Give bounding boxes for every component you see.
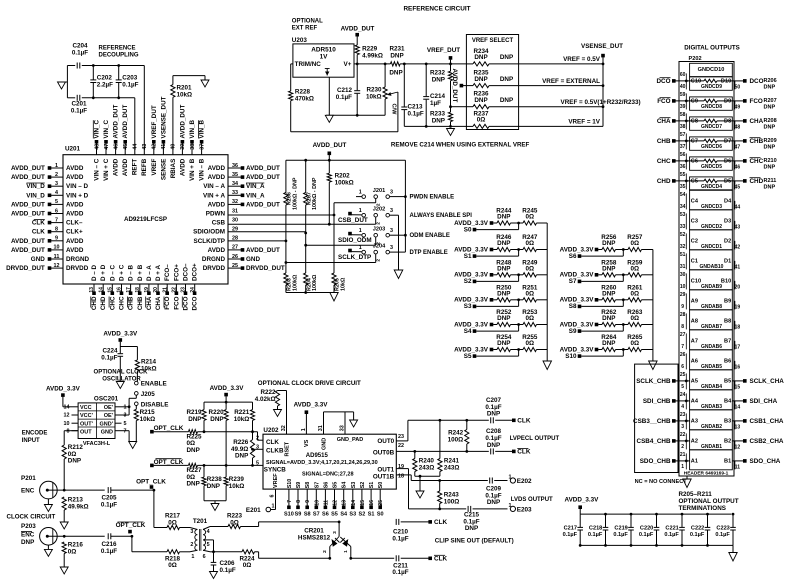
svg-text:15: 15 xyxy=(360,500,366,506)
svg-text:0Ω: 0Ω xyxy=(68,549,77,556)
svg-text:C201: C201 xyxy=(71,101,87,108)
svg-text:CR201: CR201 xyxy=(304,528,324,535)
svg-text:T201: T201 xyxy=(193,518,208,525)
node OPT_CLK-bar xyxy=(116,522,146,552)
svg-text:23: 23 xyxy=(680,412,686,418)
svg-text:FCO: FCO xyxy=(750,98,763,105)
svg-text:DTP ENABLE: DTP ENABLE xyxy=(410,250,448,256)
ground J202 always enable xyxy=(394,270,403,279)
header P202 row A6/B6 pins 26/6/16 xyxy=(680,350,741,371)
svg-text:CHB: CHB xyxy=(750,138,764,145)
resistor R241 243ohm xyxy=(438,420,460,476)
svg-text:39: 39 xyxy=(180,144,186,150)
svg-text:S3: S3 xyxy=(349,511,356,517)
resistor R226 49.9 DNP xyxy=(231,432,255,466)
resistor R246 DNP / resistor R247 0ohm (S1 select) xyxy=(454,234,547,253)
svg-text:V+: V+ xyxy=(344,61,352,68)
svg-text:VREF SELECT: VREF SELECT xyxy=(472,38,514,44)
svg-text:DNP: DNP xyxy=(497,240,510,247)
title REFERENCE CIRCUIT xyxy=(403,6,470,13)
svg-text:5: 5 xyxy=(681,384,684,390)
svg-text:A5: A5 xyxy=(691,379,698,385)
svg-text:S8: S8 xyxy=(304,511,311,517)
svg-text:OPTIONAL CLOCK DRIVE CIRCUIT: OPTIONAL CLOCK DRIVE CIRCUIT xyxy=(258,380,361,387)
svg-text:R216: R216 xyxy=(68,542,84,549)
svg-text:GND: GND xyxy=(246,256,260,263)
svg-text:43: 43 xyxy=(142,144,148,150)
svg-text:REMOVE C214 WHEN USING EXTERNA: REMOVE C214 WHEN USING EXTERNAL VREF xyxy=(391,141,530,148)
svg-text:37: 37 xyxy=(199,144,205,150)
svg-text:23: 23 xyxy=(398,434,404,440)
resistor R264 DNP / resistor R265 0ohm (S10 select) xyxy=(560,334,653,353)
svg-text:S9: S9 xyxy=(296,482,302,489)
svg-text:DECOUPLING: DECOUPLING xyxy=(99,53,139,59)
svg-text:26: 26 xyxy=(680,352,686,358)
svg-text:S0: S0 xyxy=(377,511,384,517)
header P202 row A9/B9 pins 29/9/19 xyxy=(680,290,741,311)
svg-text:VIN_B: VIN_B xyxy=(199,120,206,139)
svg-text:1: 1 xyxy=(55,163,58,169)
svg-text:CLK: CLK xyxy=(32,229,45,236)
node CLK LVPECL xyxy=(512,418,531,425)
svg-text:OPTIONAL: OPTIONAL xyxy=(292,19,323,25)
svg-text:VIN_B: VIN_B xyxy=(189,120,196,139)
label PWDN ENABLE xyxy=(410,195,455,201)
svg-text:B2: B2 xyxy=(724,439,731,445)
svg-text:0.1µF: 0.1µF xyxy=(690,532,705,538)
svg-text:R206: R206 xyxy=(764,78,777,84)
wire ENCB node xyxy=(63,535,105,538)
svg-text:CLK: CLK xyxy=(517,418,531,425)
U201 pin 31 PDWN xyxy=(206,208,238,217)
svg-text:56: 56 xyxy=(680,152,686,158)
resistor R221 10k xyxy=(234,402,255,432)
svg-text:48: 48 xyxy=(735,124,741,130)
svg-text:SDO_CHB: SDO_CHB xyxy=(640,458,671,465)
svg-text:0.1µF: 0.1µF xyxy=(336,94,352,101)
svg-text:D + A: D + A xyxy=(155,265,162,281)
VREF SELECT box xyxy=(466,35,518,130)
svg-text:6: 6 xyxy=(203,554,206,560)
svg-text:C216: C216 xyxy=(101,541,117,548)
svg-text:S1: S1 xyxy=(464,253,472,260)
svg-text:S2: S2 xyxy=(464,278,472,285)
header P202 row A8/B8 pins 28/8/18 xyxy=(680,310,741,331)
svg-text:3: 3 xyxy=(190,529,193,535)
svg-text:D9: D9 xyxy=(724,99,731,105)
svg-text:AVDD_DUT: AVDD_DUT xyxy=(313,142,347,149)
U201 pin 5 AVDD / net AVDD_DUT xyxy=(11,199,84,208)
U201 pin 28 SCLK/DTP xyxy=(194,236,239,245)
svg-text:9: 9 xyxy=(55,236,58,242)
svg-text:32: 32 xyxy=(281,425,287,431)
svg-text:OUT0: OUT0 xyxy=(377,438,394,445)
svg-text:DNP: DNP xyxy=(602,290,615,297)
wire OE pins to J205 common xyxy=(122,405,131,415)
svg-text:VREF = 1V: VREF = 1V xyxy=(568,119,600,126)
svg-text:D1: D1 xyxy=(724,259,731,265)
svg-text:DNP: DNP xyxy=(602,340,615,347)
label VREF = EXTERNAL xyxy=(542,78,600,85)
svg-text:ENABLE: ENABLE xyxy=(141,381,167,388)
svg-text:C222: C222 xyxy=(691,526,704,532)
svg-text:ALWAYS ENABLE SPI: ALWAYS ENABLE SPI xyxy=(410,213,473,219)
svg-text:FCO: FCO xyxy=(657,98,670,105)
svg-text:CHD: CHD xyxy=(91,296,98,310)
svg-text:1µF: 1µF xyxy=(430,100,441,107)
svg-text:VIN + C: VIN + C xyxy=(103,158,110,181)
node AVDD_DUT to R235 xyxy=(451,69,466,103)
svg-text:B8: B8 xyxy=(724,319,731,325)
label REMOVE C214 WHEN USING EXTERNAL VREF xyxy=(391,141,530,148)
header P202 row C3/D3 pins 53/33/43 xyxy=(680,210,741,231)
svg-text:SDIO_ODM: SDIO_ODM xyxy=(338,237,372,244)
svg-text:DNP: DNP xyxy=(764,164,776,170)
svg-text:B4: B4 xyxy=(724,399,732,405)
test point E201 xyxy=(246,504,275,514)
svg-text:VREF = 0.5V: VREF = 0.5V xyxy=(563,56,601,63)
node S3 xyxy=(464,300,519,310)
svg-text:50: 50 xyxy=(735,84,741,90)
header P202 row A1/B1 pins 21/1/11 xyxy=(680,450,740,471)
svg-text:0.1µF: 0.1µF xyxy=(392,535,408,542)
capacitor C218 0.1uF xyxy=(588,513,608,547)
svg-text:AVDD_DUT: AVDD_DUT xyxy=(11,174,45,181)
resistor R224 0ohm xyxy=(210,550,329,569)
header P202 bottom label xyxy=(684,470,729,479)
svg-text:D3: D3 xyxy=(724,219,731,225)
svg-text:100kΩ - DNP: 100kΩ - DNP xyxy=(312,177,318,210)
ground clock network xyxy=(211,504,219,511)
svg-text:GNDCD9: GNDCD9 xyxy=(701,84,722,90)
svg-text:CLK: CLK xyxy=(266,439,279,446)
wire ENC node xyxy=(63,489,105,492)
U201 pin 24 DCO+ / net DCO xyxy=(190,263,199,310)
U201 pin 8 CLK+ / net CLK xyxy=(32,227,83,236)
header P202 row A7/B7 pins 27/7/17 xyxy=(680,330,741,351)
svg-text:22: 22 xyxy=(398,443,404,449)
svg-text:VCC: VCC xyxy=(80,405,92,411)
resistor R211 DNP in row / nets CHD/CHD xyxy=(657,178,777,191)
svg-text:DNP: DNP xyxy=(474,54,487,61)
svg-text:DNP: DNP xyxy=(210,416,223,423)
svg-text:100Ω: 100Ω xyxy=(448,436,464,443)
svg-text:OSC201: OSC201 xyxy=(94,395,119,402)
svg-text:AVDD: AVDD xyxy=(208,174,226,181)
node SCLK_DTP xyxy=(338,254,371,261)
svg-text:0.1µF: 0.1µF xyxy=(715,532,730,538)
ground C206 xyxy=(210,572,218,579)
svg-text:36: 36 xyxy=(680,164,686,170)
ground U202 GND xyxy=(350,420,358,427)
svg-text:DNP: DNP xyxy=(68,458,81,465)
node AVDD_DUT pullup rail xyxy=(313,142,347,160)
header P202 row A5/B5 pins 25/5/15 xyxy=(680,370,741,391)
resistor R218 0ohm xyxy=(132,550,190,569)
resistor R260 DNP / resistor R261 0ohm (S8 select) xyxy=(560,284,653,303)
svg-text:0.1µF: 0.1µF xyxy=(613,532,628,538)
svg-text:GND': GND' xyxy=(99,421,113,427)
svg-text:4: 4 xyxy=(681,404,684,410)
svg-text:14: 14 xyxy=(351,500,357,506)
U201 pin 46 AVDD xyxy=(113,105,120,177)
svg-text:16: 16 xyxy=(735,364,741,370)
svg-text:45: 45 xyxy=(123,144,129,150)
transformer T201 xyxy=(190,518,214,560)
svg-text:FCO: FCO xyxy=(164,296,171,309)
svg-text:S7: S7 xyxy=(314,482,320,489)
svg-text:C212: C212 xyxy=(337,87,353,94)
svg-text:RSET: RSET xyxy=(284,441,290,456)
svg-text:0.1µF: 0.1µF xyxy=(563,532,578,538)
svg-text:J204: J204 xyxy=(373,244,386,250)
U201 pin 44 REFT xyxy=(132,144,139,175)
U201 pin 45 AVDD xyxy=(122,105,129,177)
resistor R215 10k disable pulldown xyxy=(134,406,155,442)
nets CSB3__CHB / CSB1_CHA xyxy=(633,418,784,425)
svg-text:CHB: CHB xyxy=(657,138,671,145)
U201 pin 32 AVDD xyxy=(208,199,280,208)
svg-text:0Ω: 0Ω xyxy=(526,214,535,221)
svg-text:47: 47 xyxy=(104,144,110,150)
svg-text:GNDAB10: GNDAB10 xyxy=(700,264,724,270)
svg-text:S10: S10 xyxy=(284,511,294,517)
svg-text:AVDD_DUT: AVDD_DUT xyxy=(341,26,375,33)
capacitor C223 0.1uF xyxy=(715,513,735,546)
svg-text:VIN_D: VIN_D xyxy=(26,183,45,190)
svg-text:43: 43 xyxy=(735,224,741,230)
svg-text:10kΩ: 10kΩ xyxy=(340,277,346,291)
svg-text:7: 7 xyxy=(287,500,293,503)
svg-text:DCO: DCO xyxy=(192,296,199,310)
wire PDWN net xyxy=(228,199,376,217)
svg-text:0Ω: 0Ω xyxy=(477,117,486,124)
capacitor C221 0.1uF xyxy=(664,513,684,547)
svg-text:DRVDD: DRVDD xyxy=(203,265,226,272)
svg-text:5: 5 xyxy=(124,421,127,427)
svg-text:14: 14 xyxy=(64,404,70,410)
svg-text:VIN_C: VIN_C xyxy=(103,120,110,139)
svg-text:AVDD_DUT: AVDD_DUT xyxy=(246,165,280,172)
svg-text:OPT_CLK: OPT_CLK xyxy=(154,459,184,466)
svg-text:VS: VS xyxy=(304,439,310,447)
wire R240/R241 tie to ground xyxy=(415,475,440,491)
node S1 xyxy=(464,250,519,260)
svg-text:10: 10 xyxy=(54,245,60,251)
svg-text:S0: S0 xyxy=(378,482,384,489)
U201 pin 7 CLK- / net CLK xyxy=(32,217,83,226)
svg-text:10kΩ: 10kΩ xyxy=(141,365,157,372)
U201 pin 27 AVDD xyxy=(208,245,280,254)
svg-text:22: 22 xyxy=(680,432,686,438)
svg-text:C5: C5 xyxy=(691,179,698,185)
svg-text:28: 28 xyxy=(680,312,686,318)
wire select bus to ground xyxy=(652,250,654,362)
svg-text:CLIP SINE OUT (DEFAULT): CLIP SINE OUT (DEFAULT) xyxy=(435,537,514,544)
U201 pin 16 D + C / net CHC xyxy=(117,264,126,310)
svg-text:R201: R201 xyxy=(177,85,193,92)
capacitor C217 0.1uF xyxy=(563,514,583,547)
svg-text:DRVDD: DRVDD xyxy=(66,265,89,272)
wire OUT0B row xyxy=(396,450,489,453)
resistor R256 DNP / resistor R257 0ohm (S6 select) xyxy=(560,234,653,253)
wire J202 to ground xyxy=(390,215,399,270)
svg-text:R205–R211: R205–R211 xyxy=(679,491,713,498)
svg-text:AVDD_3.3V: AVDD_3.3V xyxy=(560,272,595,279)
svg-text:VSENSE_DUT: VSENSE_DUT xyxy=(160,96,167,138)
svg-text:VIN_D: VIN_D xyxy=(26,192,45,199)
svg-text:CSB2_CHA: CSB2_CHA xyxy=(750,438,784,445)
ground RBIAS xyxy=(201,80,209,87)
svg-text:DNP: DNP xyxy=(497,315,510,322)
svg-text:CHC: CHC xyxy=(750,158,764,165)
svg-text:GNDCD8: GNDCD8 xyxy=(701,104,722,110)
ground C224 xyxy=(116,382,124,389)
svg-text:C221: C221 xyxy=(665,526,678,532)
U201 pin 48 VIN - C xyxy=(93,120,100,181)
jumper J203 xyxy=(348,227,393,245)
svg-text:42: 42 xyxy=(735,244,741,250)
svg-text:AVDD_DUT: AVDD_DUT xyxy=(179,105,186,139)
svg-text:OUT1B: OUT1B xyxy=(373,474,395,481)
wire left vertical with ground stub xyxy=(62,66,68,98)
svg-text:0.1µF: 0.1µF xyxy=(122,82,138,89)
svg-text:470kΩ: 470kΩ xyxy=(295,96,314,103)
svg-text:AVDD: AVDD xyxy=(66,247,84,254)
svg-text:VSENSE_DUT: VSENSE_DUT xyxy=(581,43,623,50)
svg-text:40: 40 xyxy=(171,144,177,150)
svg-text:C/W: C/W xyxy=(391,104,397,116)
svg-text:SDI_CHB: SDI_CHB xyxy=(643,398,671,405)
wire OUT1B to E202 row xyxy=(396,475,488,482)
svg-text:CLOCK CIRCUIT: CLOCK CIRCUIT xyxy=(7,513,56,520)
svg-text:GND: GND xyxy=(31,256,45,263)
U201 pin 18 D + B / net CHB xyxy=(135,264,144,310)
resistor R232 DNP xyxy=(430,64,453,107)
svg-text:C6: C6 xyxy=(691,159,698,165)
svg-text:100Ω: 100Ω xyxy=(444,498,460,505)
svg-text:0.1µF: 0.1µF xyxy=(639,532,654,538)
capacitor C203 0.1uF xyxy=(116,66,139,98)
svg-text:DNP: DNP xyxy=(207,483,220,490)
svg-text:6: 6 xyxy=(55,208,58,214)
svg-text:1: 1 xyxy=(359,189,362,195)
svg-text:0.1µF: 0.1µF xyxy=(72,50,88,57)
connector P201 ENC xyxy=(21,475,64,505)
svg-text:S6: S6 xyxy=(323,482,329,489)
resistor R238 DNP xyxy=(202,464,222,501)
svg-text:S4: S4 xyxy=(342,482,348,489)
svg-text:U202: U202 xyxy=(263,427,279,434)
capacitor C215 0.1uF DNP xyxy=(463,506,507,532)
svg-text:49: 49 xyxy=(735,104,741,110)
svg-text:REFERENCE: REFERENCE xyxy=(99,46,136,52)
node S5 xyxy=(464,350,519,360)
test point E203 xyxy=(509,503,533,513)
svg-text:DRVDD_DUT: DRVDD_DUT xyxy=(6,265,45,272)
svg-text:CHA: CHA xyxy=(146,296,153,310)
svg-text:54: 54 xyxy=(680,192,686,198)
capacitor C219 0.1uF xyxy=(613,513,633,547)
svg-text:DNP: DNP xyxy=(187,481,200,488)
svg-text:44: 44 xyxy=(735,204,741,210)
svg-text:0Ω: 0Ω xyxy=(631,340,640,347)
svg-text:OPT_CLK: OPT_CLK xyxy=(136,478,166,485)
svg-text:P202: P202 xyxy=(689,56,702,62)
svg-text:29: 29 xyxy=(680,292,686,298)
svg-text:HEADER 6469169-1: HEADER 6469169-1 xyxy=(684,470,729,476)
svg-text:DNP: DNP xyxy=(602,315,615,322)
svg-text:S5: S5 xyxy=(464,353,472,360)
resistor R254 DNP / resistor R255 0ohm (S5 select) xyxy=(454,334,547,353)
svg-text:DNP: DNP xyxy=(500,97,513,104)
svg-text:12: 12 xyxy=(54,263,60,269)
svg-text:0.1µF: 0.1µF xyxy=(101,502,117,509)
resistor R213 49.9k xyxy=(62,497,89,523)
svg-text:10kΩ: 10kΩ xyxy=(140,416,156,423)
svg-text:DNP: DNP xyxy=(465,525,478,532)
svg-text:DNP: DNP xyxy=(500,76,513,83)
resistor R208 DNP in row / nets CHA/CHA xyxy=(657,118,777,131)
resistor R243 100ohm xyxy=(438,481,460,509)
svg-text:D – A: D – A xyxy=(146,265,153,281)
svg-text:R209: R209 xyxy=(764,138,777,144)
svg-text:SCLK_DTP: SCLK_DTP xyxy=(338,254,371,261)
svg-text:GNDCD2: GNDCD2 xyxy=(701,224,722,230)
resistor R248 DNP / resistor R249 0ohm (S2 select) xyxy=(454,259,547,278)
svg-text:DNP: DNP xyxy=(497,340,510,347)
svg-text:CHC: CHC xyxy=(119,296,126,310)
svg-text:C1: C1 xyxy=(691,259,698,265)
svg-text:C8: C8 xyxy=(691,119,698,125)
svg-text:33: 33 xyxy=(680,224,686,230)
U201 pin 34 VIN - A xyxy=(203,181,265,190)
svg-text:GNDCD10: GNDCD10 xyxy=(698,67,725,73)
svg-text:4: 4 xyxy=(55,190,58,196)
svg-text:HSMS2812: HSMS2812 xyxy=(298,535,331,542)
svg-text:TRIM/NC: TRIM/NC xyxy=(295,61,322,68)
svg-text:58: 58 xyxy=(680,112,686,118)
svg-text:CHC: CHC xyxy=(109,296,116,310)
connector P203 ENC-bar DNP xyxy=(21,523,64,550)
svg-text:P201: P201 xyxy=(21,475,36,482)
svg-text:GNDAB6: GNDAB6 xyxy=(701,344,722,350)
U201 pin 47 VIN + C xyxy=(103,120,110,181)
U201 pin 11 DRGND / net GND xyxy=(31,254,90,263)
svg-text:25: 25 xyxy=(680,372,686,378)
label DIGITAL OUTPUTS xyxy=(684,45,739,52)
svg-text:C224: C224 xyxy=(102,347,118,354)
ground select bus xyxy=(649,361,658,370)
svg-text:R231: R231 xyxy=(389,46,405,53)
svg-text:A9: A9 xyxy=(691,299,698,305)
header P202 row C6/D6 pins 56/36/46 xyxy=(680,152,741,170)
svg-text:20: 20 xyxy=(735,284,741,290)
resistor R209 DNP in row / nets CHB/CHB xyxy=(657,138,777,151)
svg-text:0Ω: 0Ω xyxy=(168,519,177,526)
resistor R227 0ohm xyxy=(187,463,264,487)
resistor R205 10k xyxy=(332,215,347,293)
svg-text:OE': OE' xyxy=(104,413,114,419)
svg-text:DNP: DNP xyxy=(432,77,445,84)
svg-text:D – B: D – B xyxy=(128,264,135,281)
node VREF_DUT xyxy=(427,47,460,64)
svg-text:U201: U201 xyxy=(65,146,81,153)
svg-text:21: 21 xyxy=(680,452,686,458)
svg-text:34: 34 xyxy=(680,204,686,210)
svg-text:R233: R233 xyxy=(430,111,446,118)
svg-text:VREF = 0.5V(1+R232/R233): VREF = 0.5V(1+R232/R233) xyxy=(561,99,641,106)
